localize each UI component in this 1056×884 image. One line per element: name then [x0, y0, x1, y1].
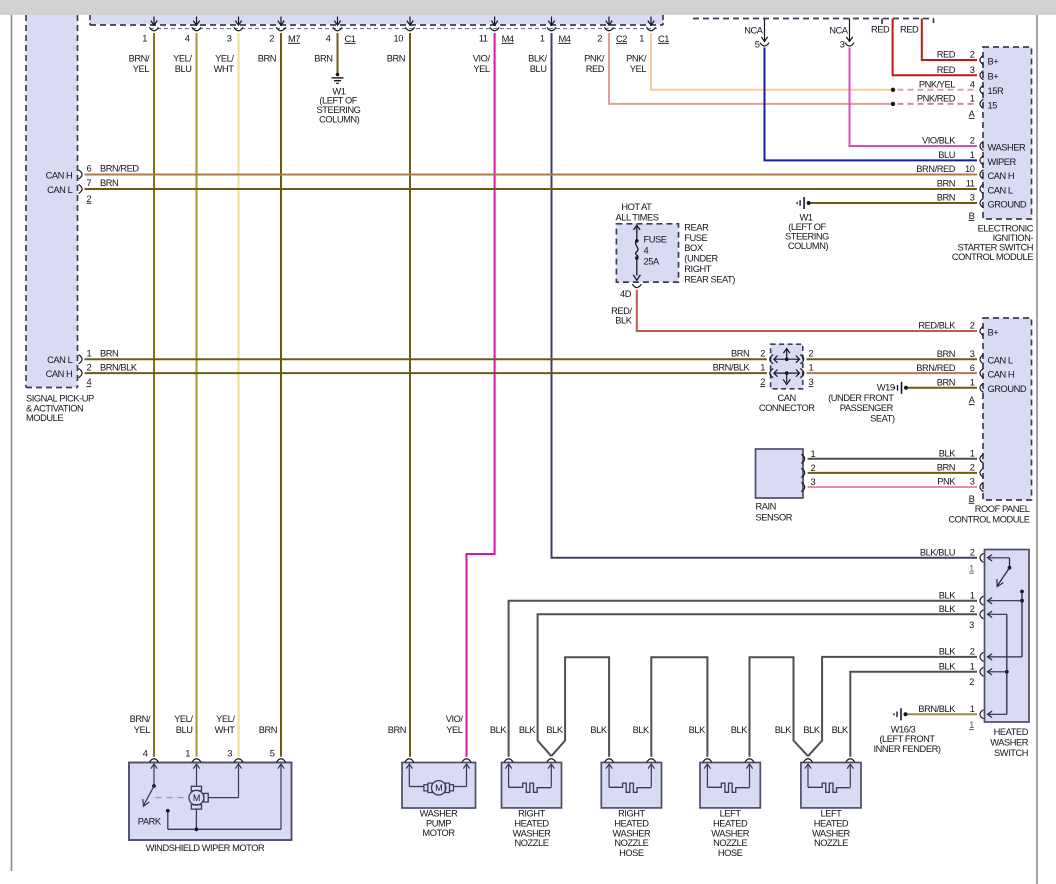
- svg-text:2: 2: [811, 463, 816, 473]
- component: WASHER PUMP MOTOR: [402, 763, 476, 809]
- svg-text:10: 10: [965, 164, 975, 174]
- svg-text:ROOF PANEL: ROOF PANEL: [975, 504, 1030, 514]
- svg-text:BLK: BLK: [689, 725, 706, 735]
- svg-text:BLK/: BLK/: [528, 53, 547, 63]
- svg-text:M: M: [435, 783, 442, 793]
- svg-text:6: 6: [87, 164, 92, 174]
- splice dot PNK/YEL: [891, 88, 895, 92]
- left page border line: [11, 15, 13, 871]
- switch pin 2 (BLK/BLU): [980, 553, 983, 562]
- svg-text:3: 3: [840, 39, 845, 49]
- svg-text:ALL TIMES: ALL TIMES: [616, 213, 659, 223]
- svg-text:1: 1: [811, 449, 816, 459]
- svg-text:B: B: [969, 494, 975, 504]
- svg-text:7: 7: [87, 178, 92, 188]
- CAN connector internal arrows: [774, 349, 800, 385]
- svg-text:BLK: BLK: [803, 725, 820, 735]
- svg-text:1: 1: [970, 378, 975, 388]
- svg-text:LEFT: LEFT: [720, 809, 742, 819]
- svg-text:BRN: BRN: [937, 193, 955, 203]
- svg-text:4: 4: [970, 80, 975, 90]
- svg-text:YEL/: YEL/: [173, 53, 192, 63]
- wire RED to ignition module B+ pin3: [893, 19, 977, 76]
- svg-text:2: 2: [970, 548, 975, 558]
- washer pump internal motor: [406, 764, 470, 795]
- svg-text:HEATED: HEATED: [614, 819, 649, 829]
- svg-text:1: 1: [969, 564, 974, 574]
- svg-text:YEL: YEL: [134, 725, 151, 735]
- svg-text:3: 3: [809, 377, 814, 387]
- svg-text:BLK: BLK: [546, 725, 563, 735]
- RIGHT HEATED WASHER NOZZLE left pin: [504, 759, 513, 762]
- svg-text:PNK/: PNK/: [584, 53, 605, 63]
- svg-text:11: 11: [966, 179, 975, 189]
- RIGHT HEATED WASHER NOZZLE HOSE left pin: [605, 759, 614, 762]
- pin row dashed link line: [150, 28, 657, 30]
- roof module pin 3 CAN L: [980, 355, 983, 364]
- svg-text:11: 11: [479, 33, 488, 43]
- svg-text:CAN H: CAN H: [988, 171, 1015, 181]
- svg-text:CONTROL MODULE: CONTROL MODULE: [948, 514, 1029, 524]
- fuse output pin 4D: [632, 284, 641, 287]
- wire BLK (switch pin2 lower to left heated washer nozzle): [808, 657, 977, 756]
- svg-text:ELECTRONIC: ELECTRONIC: [978, 224, 1034, 234]
- svg-text:BRN: BRN: [937, 378, 955, 388]
- NCA pin 5: [764, 19, 766, 42]
- svg-text:5: 5: [755, 39, 760, 49]
- svg-text:BRN: BRN: [387, 53, 405, 63]
- svg-text:2: 2: [970, 321, 975, 331]
- svg-text:C1: C1: [658, 34, 669, 44]
- wiper motor pin 3: [234, 759, 243, 762]
- washer pump pin left: [405, 759, 414, 762]
- LEFT HEATED WASHER NOZZLE right pin: [846, 759, 855, 762]
- ignition module pin 4 15R: [980, 85, 983, 94]
- wire VIO/BLK (NCA 3 to ignition module WASHER pin2): [850, 48, 978, 147]
- svg-text:BRN: BRN: [258, 53, 276, 63]
- wiper motor pin 1: [192, 759, 201, 762]
- svg-text:W1: W1: [799, 212, 812, 222]
- svg-text:2: 2: [970, 136, 975, 146]
- wire YEL/WHT (band pin3 to wiper motor pin3): [237, 33, 239, 757]
- svg-text:YEL: YEL: [446, 725, 463, 735]
- svg-text:WASHER: WASHER: [513, 828, 551, 838]
- svg-text:HEATED: HEATED: [713, 819, 748, 829]
- svg-text:BOX: BOX: [684, 243, 703, 253]
- svg-text:CAN H: CAN H: [46, 170, 73, 180]
- svg-text:M4: M4: [502, 34, 514, 44]
- svg-text:YEL: YEL: [473, 64, 490, 74]
- wire RED/BLK (fuse 4 to roof module B+ pin2): [637, 290, 977, 331]
- svg-text:HOSE: HOSE: [619, 848, 644, 858]
- module: SIGNAL PICK-UP & ACTIVATION MODULE: [26, 15, 78, 388]
- svg-text:BRN: BRN: [937, 349, 955, 359]
- svg-text:BLK: BLK: [731, 725, 748, 735]
- svg-text:BLK: BLK: [590, 725, 607, 735]
- ignition module pin 1 WIPER: [980, 156, 983, 165]
- module: ROOF PANEL CONTROL MODULE: [983, 318, 1032, 500]
- svg-text:BRN/BLK: BRN/BLK: [918, 704, 956, 714]
- svg-text:3: 3: [970, 193, 975, 203]
- svg-text:BLU: BLU: [175, 64, 192, 74]
- svg-text:2: 2: [760, 349, 765, 359]
- svg-text:& ACTIVATION: & ACTIVATION: [26, 403, 83, 413]
- svg-text:3: 3: [811, 477, 816, 487]
- svg-text:WIPER: WIPER: [988, 157, 1017, 167]
- svg-text:1: 1: [970, 704, 975, 714]
- svg-text:1: 1: [970, 94, 975, 104]
- connector: CAN CONNECTOR: [771, 344, 803, 389]
- band pin 10: [409, 17, 411, 26]
- svg-text:NCA: NCA: [744, 25, 764, 35]
- svg-text:2: 2: [809, 349, 814, 359]
- bridge wire BLK right hose to left hose: [651, 657, 707, 757]
- svg-text:BRN: BRN: [937, 463, 955, 473]
- svg-text:RED/BLK: RED/BLK: [918, 321, 956, 331]
- component: RAIN SENSOR: [756, 449, 804, 498]
- svg-text:RIGHT: RIGHT: [684, 264, 711, 274]
- top gray bar: [0, 0, 1056, 15]
- svg-text:PARK: PARK: [138, 816, 162, 826]
- splice dot PNK/RED: [891, 102, 895, 106]
- roof module rain sensor pin 1: [980, 454, 983, 463]
- svg-text:RIGHT: RIGHT: [518, 809, 545, 819]
- wire BRN/BLK (ground W16/3 to switch pin1): [908, 713, 978, 715]
- svg-text:(LEFT OF: (LEFT OF: [319, 96, 357, 106]
- svg-text:RED/: RED/: [611, 306, 632, 316]
- ignition module pin 3 B+: [980, 71, 983, 80]
- band pin 11 connector M4: [494, 17, 496, 26]
- switch pin 1 (BLK): [980, 667, 983, 676]
- svg-text:CAN L: CAN L: [47, 185, 72, 195]
- svg-text:3: 3: [969, 620, 974, 630]
- svg-text:SIGNAL PICK-UP: SIGNAL PICK-UP: [26, 394, 94, 404]
- LEFT HEATED WASHER NOZZLE heater element: [805, 764, 854, 792]
- switch pin 1 (BRN/BLK): [980, 710, 983, 719]
- svg-text:CAN: CAN: [778, 393, 796, 403]
- svg-text:CAN H: CAN H: [988, 370, 1015, 380]
- ground W1 (left of steering column) top: [336, 73, 340, 77]
- svg-text:BRN/BLK: BRN/BLK: [713, 363, 751, 373]
- svg-text:3: 3: [970, 349, 975, 359]
- signal module pin 1 CAN L: [79, 355, 82, 364]
- top harness band: [90, 15, 663, 25]
- svg-text:BRN: BRN: [731, 349, 749, 359]
- svg-text:BRN/RED: BRN/RED: [916, 164, 955, 174]
- ignition module pin 11 CAN L: [980, 184, 983, 193]
- svg-text:STARTER SWITCH: STARTER SWITCH: [958, 243, 1033, 253]
- svg-text:WHT: WHT: [215, 725, 236, 735]
- svg-text:1: 1: [970, 662, 975, 672]
- component: HEATED WASHER SWITCH: [985, 550, 1030, 723]
- svg-text:2: 2: [970, 50, 975, 60]
- svg-text:1: 1: [970, 449, 975, 459]
- svg-text:1: 1: [185, 748, 190, 758]
- svg-text:COLUMN): COLUMN): [788, 241, 829, 251]
- svg-text:2: 2: [760, 377, 765, 387]
- band pin 4: [196, 17, 198, 26]
- CAN connector left pin 1: [770, 369, 773, 378]
- svg-text:BLK: BLK: [615, 315, 632, 325]
- svg-text:HEATED: HEATED: [994, 727, 1029, 737]
- ignition module pin 1 15: [980, 99, 983, 108]
- wire PNK/YEL (band pin1 C1 to ignition module pin4): [651, 33, 891, 90]
- svg-text:SEAT): SEAT): [870, 413, 895, 423]
- svg-text:PUMP: PUMP: [426, 818, 451, 828]
- svg-text:HOSE: HOSE: [718, 848, 743, 858]
- component: WINDSHIELD WIPER MOTOR: [129, 763, 292, 841]
- svg-text:CONNECTOR: CONNECTOR: [759, 403, 815, 413]
- svg-text:YEL/: YEL/: [174, 714, 193, 724]
- RIGHT HEATED WASHER NOZZLE heater element: [505, 764, 554, 792]
- svg-text:PNK/: PNK/: [626, 53, 647, 63]
- svg-text:CAN H: CAN H: [46, 369, 73, 379]
- svg-text:RED: RED: [900, 25, 919, 35]
- svg-text:YEL: YEL: [630, 64, 647, 74]
- svg-text:FUSE: FUSE: [684, 233, 707, 243]
- svg-text:2: 2: [970, 604, 975, 614]
- svg-text:BLK: BLK: [633, 725, 650, 735]
- svg-text:BRN: BRN: [100, 178, 118, 188]
- svg-text:BLK: BLK: [490, 725, 507, 735]
- svg-text:MOTOR: MOTOR: [422, 828, 455, 838]
- svg-text:W19: W19: [877, 382, 895, 392]
- svg-text:RED: RED: [937, 65, 956, 75]
- svg-text:4D: 4D: [620, 289, 632, 299]
- component: RIGHT HEATED WASHER NOZZLE HOSE: [601, 763, 661, 808]
- svg-text:NCA: NCA: [829, 25, 849, 35]
- svg-text:10: 10: [394, 33, 404, 43]
- svg-text:SENSOR: SENSOR: [756, 512, 793, 522]
- svg-text:2: 2: [87, 363, 92, 373]
- rain sensor pin 3: [801, 482, 804, 491]
- svg-text:BRN: BRN: [100, 348, 118, 358]
- wire BRN (band pin2 M7 to wiper motor pin5): [280, 33, 282, 757]
- component: LEFT HEATED WASHER NOZZLE: [801, 763, 861, 808]
- svg-text:NOZZLE: NOZZLE: [713, 838, 747, 848]
- svg-text:YEL: YEL: [133, 64, 150, 74]
- svg-text:RIGHT: RIGHT: [618, 809, 645, 819]
- svg-text:BLK: BLK: [939, 647, 956, 657]
- svg-text:SWITCH: SWITCH: [994, 748, 1028, 758]
- top wire color labels: [129, 53, 647, 74]
- wire BLK/BLU (band pin1 M4 to heated washer switch pin2): [552, 33, 978, 558]
- svg-text:4: 4: [326, 33, 331, 43]
- wire BLK (switch pin2 to right heated washer nozzle): [538, 614, 977, 756]
- svg-text:CAN L: CAN L: [47, 355, 72, 365]
- switch internal circuit: [988, 555, 1024, 718]
- LEFT HEATED WASHER NOZZLE HOSE right pin: [745, 759, 754, 762]
- svg-text:1: 1: [639, 33, 644, 43]
- svg-text:BLK: BLK: [832, 725, 849, 735]
- svg-text:HEATED: HEATED: [514, 819, 549, 829]
- svg-text:RED: RED: [586, 64, 605, 74]
- wire YEL/BLU (band pin4 to wiper motor pin1): [196, 33, 198, 757]
- svg-text:2: 2: [970, 647, 975, 657]
- svg-text:GROUND: GROUND: [988, 384, 1027, 394]
- rain sensor pin 1: [801, 454, 804, 463]
- wire BRN CAN L (CAN connector to roof module pin3): [807, 358, 978, 360]
- wire BRN (rain sensor pin2 to roof module): [808, 472, 977, 474]
- wire BRN CAN L (signal pin1 to CAN connector): [85, 358, 767, 360]
- svg-text:15R: 15R: [988, 86, 1004, 96]
- svg-text:6: 6: [970, 363, 975, 373]
- wiper motor pin 5: [276, 759, 285, 762]
- CAN connector right pin 2: [800, 355, 803, 364]
- RIGHT HEATED WASHER NOZZLE right pin: [547, 759, 556, 762]
- bridge wire BLK left hose to left nozzle: [750, 657, 809, 757]
- wire BRN/BLK CAN H (signal pin2 to CAN connector): [85, 372, 767, 374]
- svg-text:PNK: PNK: [937, 477, 956, 487]
- svg-text:1: 1: [970, 590, 975, 600]
- LEFT HEATED WASHER NOZZLE HOSE heater element: [704, 764, 753, 792]
- svg-text:(UNDER: (UNDER: [684, 254, 718, 264]
- wire BLK (rain sensor pin1 to roof module): [808, 458, 977, 460]
- ignition module pin 2 WASHER: [980, 141, 983, 150]
- svg-text:WASHER: WASHER: [988, 142, 1026, 152]
- svg-text:BRN/RED: BRN/RED: [916, 363, 955, 373]
- svg-text:WASHER: WASHER: [711, 828, 749, 838]
- svg-text:2: 2: [969, 677, 974, 687]
- svg-text:B+: B+: [988, 56, 999, 66]
- svg-text:1: 1: [809, 363, 814, 373]
- band pin 1 connector M4: [551, 17, 553, 26]
- svg-text:WASHER: WASHER: [420, 809, 458, 819]
- svg-text:3: 3: [970, 477, 975, 487]
- band pin 4 connector C1: [337, 17, 339, 26]
- svg-text:BLK/BLU: BLK/BLU: [920, 548, 955, 558]
- svg-text:CAN L: CAN L: [988, 185, 1013, 195]
- svg-text:VIO/: VIO/: [473, 53, 491, 63]
- svg-text:5: 5: [270, 748, 275, 758]
- switch pin 2 (BLK): [980, 652, 983, 661]
- roof module pin 1 GROUND: [980, 383, 983, 392]
- NCA pin 3: [849, 19, 851, 42]
- svg-text:CONTROL MODULE: CONTROL MODULE: [952, 252, 1033, 262]
- svg-text:YEL/: YEL/: [216, 714, 235, 724]
- roof module rain sensor pin 2: [980, 468, 983, 477]
- svg-text:4: 4: [644, 246, 649, 256]
- svg-text:BRN: BRN: [314, 53, 332, 63]
- bridge wire BLK nozzle to nozzle-hose: [551, 657, 609, 757]
- band pin 3: [238, 17, 240, 26]
- svg-text:25A: 25A: [644, 256, 660, 266]
- wire BRN (band pin10 to washer pump motor): [409, 33, 411, 757]
- svg-text:BRN/: BRN/: [129, 53, 150, 63]
- right page border line: [1036, 15, 1038, 884]
- svg-text:MODULE: MODULE: [26, 413, 63, 423]
- svg-text:NOZZLE: NOZZLE: [614, 838, 648, 848]
- ground W1 (left of steering column) right: [807, 201, 811, 205]
- svg-text:C1: C1: [345, 34, 356, 44]
- RIGHT HEATED WASHER NOZZLE HOSE right pin: [647, 759, 656, 762]
- svg-text:GROUND: GROUND: [988, 199, 1027, 209]
- svg-text:C2: C2: [616, 34, 627, 44]
- svg-text:BLU: BLU: [938, 150, 955, 160]
- svg-text:15: 15: [988, 100, 998, 110]
- svg-text:WASHER: WASHER: [812, 828, 850, 838]
- svg-text:WASHER: WASHER: [990, 737, 1028, 747]
- LEFT HEATED WASHER NOZZLE HOSE left pin: [703, 759, 712, 762]
- band pin 2 connector C2: [608, 17, 610, 26]
- svg-text:VIO/BLK: VIO/BLK: [922, 136, 956, 146]
- washer pump pin right: [462, 759, 471, 762]
- svg-text:3: 3: [227, 748, 232, 758]
- svg-text:PNK/RED: PNK/RED: [917, 94, 956, 104]
- wire BRN/RED CAN H (CAN connector to roof module pin6): [807, 372, 978, 374]
- svg-text:2: 2: [269, 33, 274, 43]
- svg-text:BLK: BLK: [775, 725, 792, 735]
- CAN connector left pin 2: [770, 355, 773, 364]
- svg-text:B+: B+: [988, 327, 999, 337]
- svg-text:CAN L: CAN L: [988, 356, 1013, 366]
- wire BRN CAN L (signal module pin7 to ignition module pin11): [85, 188, 978, 190]
- svg-text:VIO/: VIO/: [446, 714, 464, 724]
- rain sensor pin 2: [801, 468, 804, 477]
- wire PNK (rain sensor pin3 to roof module): [808, 486, 977, 488]
- band pin 1 connector C1: [650, 17, 652, 26]
- wire VIO/YEL (band pin11 M4 to washer pump motor): [467, 33, 495, 757]
- svg-text:WHT: WHT: [214, 64, 235, 74]
- module: ELECTRONIC IGNITION-STARTER SWITCH CONTROL MODULE: [983, 47, 1032, 219]
- dashed NCA continuation PNK/YEL to pin 15R: [898, 89, 978, 91]
- bottom wire color labels: [130, 714, 849, 735]
- fuse box: REAR FUSE BOX: [616, 224, 678, 282]
- ignition module pin 10 CAN H: [980, 170, 983, 179]
- svg-text:1: 1: [760, 363, 765, 373]
- svg-text:B: B: [969, 211, 975, 221]
- ground W16/3 (left front inner fender): [904, 712, 908, 716]
- svg-text:BLK: BLK: [939, 604, 956, 614]
- svg-text:BLK: BLK: [939, 449, 956, 459]
- svg-text:RAIN: RAIN: [756, 502, 776, 512]
- switch pin 2 (BLK): [980, 610, 983, 619]
- svg-text:RED: RED: [871, 25, 890, 35]
- svg-text:REAR: REAR: [684, 222, 709, 232]
- wire RED to ignition module B+ pin2: [922, 19, 977, 61]
- roof module pin 2 B+: [980, 326, 983, 335]
- signal module pin 7 CAN L: [79, 184, 82, 193]
- svg-text:1: 1: [540, 33, 545, 43]
- svg-text:BLU: BLU: [530, 64, 547, 74]
- svg-text:B+: B+: [988, 72, 999, 82]
- wiper motor pin 4: [149, 759, 158, 762]
- svg-text:BRN/: BRN/: [130, 714, 151, 724]
- band pin 2 connector M7: [280, 17, 282, 26]
- svg-text:2: 2: [87, 194, 92, 204]
- svg-text:BRN/RED: BRN/RED: [100, 164, 139, 174]
- wire BRN (band pin4 C1 to ground W1): [337, 33, 339, 73]
- svg-text:(LEFT FRONT: (LEFT FRONT: [879, 734, 935, 744]
- svg-text:WASHER: WASHER: [613, 828, 651, 838]
- svg-text:M7: M7: [288, 34, 300, 44]
- signal module pin 2 CAN H: [79, 369, 82, 378]
- svg-text:BRN: BRN: [388, 725, 406, 735]
- RIGHT HEATED WASHER NOZZLE HOSE heater element: [606, 764, 655, 792]
- svg-text:M4: M4: [559, 34, 571, 44]
- svg-text:WINDSHIELD WIPER MOTOR: WINDSHIELD WIPER MOTOR: [146, 843, 265, 853]
- svg-text:YEL/: YEL/: [215, 53, 234, 63]
- svg-text:PASSENGER: PASSENGER: [840, 403, 894, 413]
- wire BLU (NCA 5 to ignition module WIPER pin1): [765, 48, 978, 161]
- fuse 4 25A element: [633, 225, 640, 280]
- svg-text:(UNDER FRONT: (UNDER FRONT: [828, 393, 894, 403]
- svg-text:2: 2: [970, 463, 975, 473]
- svg-text:HOT AT: HOT AT: [621, 202, 652, 212]
- svg-text:REAR SEAT): REAR SEAT): [684, 274, 735, 284]
- wire BRN/YEL (band pin1 to wiper motor pin4): [153, 33, 155, 757]
- svg-text:LEFT: LEFT: [820, 809, 842, 819]
